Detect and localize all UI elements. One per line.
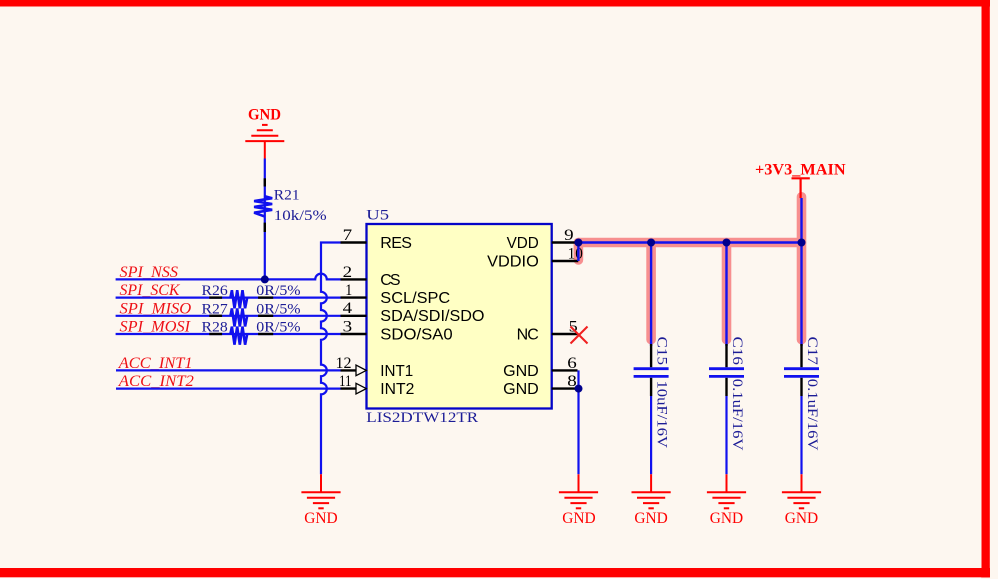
pin 4 stub	[341, 315, 367, 317]
svg-text:C15: C15	[654, 337, 670, 366]
svg-text:GND: GND	[710, 510, 743, 527]
pin 10 stub	[552, 260, 579, 262]
junction dot C16	[723, 239, 731, 247]
junction R21/SPI_NSS	[261, 275, 269, 283]
svg-text:0.1uF/16V: 0.1uF/16V	[729, 379, 745, 451]
pin 1 stub	[341, 296, 367, 298]
wire bus to C16	[725, 243, 727, 347]
resistor R21	[254, 196, 272, 216]
resistor R21 pin stubs	[264, 178, 266, 186]
pin 11 stub with input arrow	[341, 387, 358, 389]
IC U5 LIS2DTW12TR	[367, 224, 552, 409]
wire SPI_NSS with hop over vertical	[116, 274, 341, 280]
svg-text:0R/5%: 0R/5%	[256, 301, 300, 317]
wire C17 to ground	[800, 396, 802, 474]
svg-text:SDO/SA0: SDO/SA0	[380, 326, 452, 343]
svg-text:GND: GND	[248, 106, 281, 123]
svg-text:GND: GND	[503, 363, 539, 380]
svg-text:10uF/16V: 10uF/16V	[654, 381, 670, 449]
wire power feed down to bus and C17	[800, 198, 802, 346]
pin 2 stub	[341, 278, 367, 280]
svg-text:C16: C16	[729, 337, 745, 366]
svg-text:1: 1	[345, 282, 352, 299]
svg-text:INT1: INT1	[380, 363, 413, 380]
capacitor C16	[725, 344, 727, 367]
svg-text:C17: C17	[804, 337, 820, 366]
svg-text:INT2: INT2	[380, 381, 414, 398]
svg-text:CS: CS	[380, 272, 400, 289]
ground (bottom, C15)	[632, 474, 671, 508]
junction dot C17/power	[798, 239, 806, 247]
highlight vertical at C16	[722, 243, 732, 340]
highlight vertical at pin10	[574, 243, 584, 261]
svg-text:LIS2DTW12TR: LIS2DTW12TR	[366, 410, 478, 426]
wire C16 to ground	[725, 396, 727, 474]
svg-text:11: 11	[339, 373, 352, 390]
svg-text:+3V3_MAIN: +3V3_MAIN	[755, 161, 846, 178]
wire VDDIO up to bus	[577, 243, 579, 262]
junction dot pin8	[575, 385, 583, 393]
svg-text:0R/5%: 0R/5%	[256, 283, 300, 299]
svg-text:R27: R27	[202, 301, 229, 317]
ground (bottom, RES net)	[301, 474, 340, 508]
svg-text:NC: NC	[517, 326, 539, 343]
svg-text:3: 3	[343, 318, 353, 335]
svg-text:6: 6	[567, 355, 577, 372]
svg-text:GND: GND	[304, 510, 337, 527]
resistor R27	[230, 308, 247, 326]
svg-text:7: 7	[343, 227, 353, 244]
pin 6 stub	[552, 369, 578, 371]
svg-text:2: 2	[343, 264, 353, 281]
svg-text:VDD: VDD	[507, 235, 539, 252]
highlight vertical at C15	[646, 243, 656, 340]
svg-text:SDA/SDI/SDO: SDA/SDI/SDO	[380, 308, 484, 325]
junction dot pin9/10	[574, 239, 582, 247]
svg-text:12: 12	[336, 355, 352, 372]
svg-text:VDDIO: VDDIO	[487, 253, 539, 270]
ground (bottom, C16)	[707, 474, 746, 508]
resistor R26	[230, 290, 247, 308]
wire bus to C15	[650, 243, 652, 347]
svg-text:GND: GND	[785, 510, 818, 527]
svg-text:GND: GND	[562, 510, 595, 527]
wire SPI_MISO	[116, 315, 341, 317]
svg-text:R28: R28	[202, 320, 228, 336]
capacitor C15	[650, 344, 652, 367]
wire RES vertical with hops	[321, 243, 341, 475]
pin 7 stub	[341, 241, 367, 243]
no-connect X on pin 5	[571, 327, 588, 344]
svg-text:10: 10	[568, 245, 583, 262]
wire SPI_MOSI	[116, 333, 341, 335]
power symbol +3V3_MAIN	[792, 177, 810, 179]
junction dot C15	[647, 239, 655, 247]
pin 9 stub	[552, 241, 578, 243]
wire C15 to ground	[650, 396, 652, 474]
svg-text:RES: RES	[380, 235, 412, 252]
ground (bottom, C17)	[782, 474, 821, 508]
wire pin6 to pin8 to ground	[577, 370, 579, 474]
resistor R26 stubs	[209, 296, 222, 298]
svg-text:10k/5%: 10k/5%	[274, 208, 327, 224]
wire SPI_SCK	[116, 297, 341, 299]
wire VDD bus	[577, 241, 801, 243]
svg-text:4: 4	[343, 300, 353, 317]
wire ACC_INT1	[116, 369, 341, 371]
pin 12 stub with input arrow	[341, 369, 358, 371]
resistor R27 stubs	[209, 315, 222, 317]
ground (top, net of R21)	[245, 125, 284, 159]
svg-text:9: 9	[564, 227, 574, 244]
wire ACC_INT2	[116, 388, 341, 390]
svg-text:R21: R21	[274, 187, 300, 203]
svg-text:U5: U5	[366, 208, 389, 224]
svg-text:R26: R26	[202, 283, 229, 299]
capacitor C17	[800, 344, 802, 367]
pin 5 stub	[552, 333, 578, 335]
pin 3 stub	[341, 333, 367, 335]
svg-text:0.1uF/16V: 0.1uF/16V	[804, 379, 820, 451]
svg-text:SCL/SPC: SCL/SPC	[380, 290, 450, 307]
wire GND to R21 to junction	[264, 159, 266, 280]
svg-text:GND: GND	[503, 381, 539, 398]
svg-text:GND: GND	[634, 510, 667, 527]
pin 8 stub	[552, 387, 579, 389]
highlight net +3V3_MAIN horizontal bus	[578, 238, 801, 248]
svg-text:0R/5%: 0R/5%	[256, 320, 300, 336]
resistor R28 stubs	[209, 333, 222, 335]
resistor R28	[230, 327, 247, 345]
highlight vertical at C17 and power feed	[797, 197, 807, 340]
ground (bottom, pin8 net)	[559, 474, 598, 508]
